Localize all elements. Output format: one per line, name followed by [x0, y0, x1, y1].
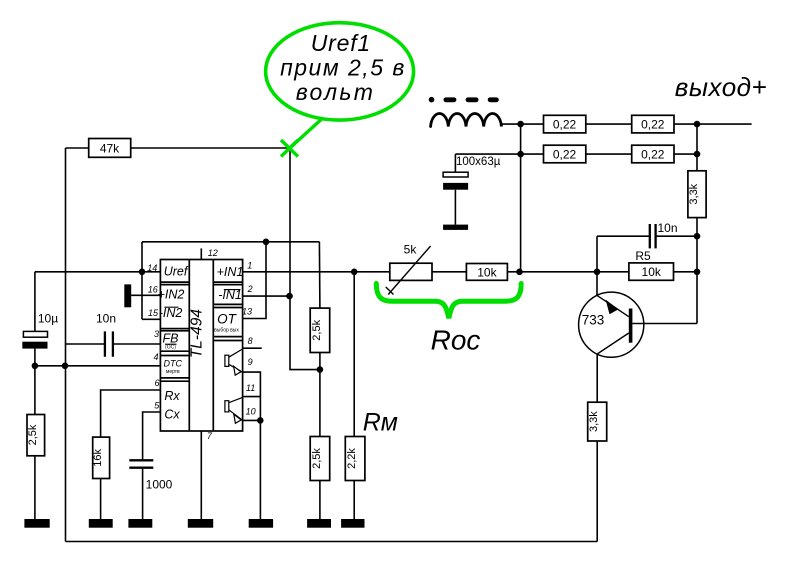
wire pin14 Uref to left: [35, 271, 160, 273]
wire 2,5k to ground: [34, 456, 36, 519]
svg-text:47k: 47k: [100, 142, 120, 156]
svg-text:вольт: вольт: [296, 79, 376, 105]
svg-text:0,22: 0,22: [641, 148, 665, 162]
svg-text:(ОС): (ОС): [165, 345, 176, 351]
svg-text:1000: 1000: [146, 478, 173, 492]
capacitor 10n left: [105, 331, 113, 356]
svg-text:0,22: 0,22: [553, 148, 577, 162]
wire bus right end down to 2,5k divider: [318, 242, 321, 308]
svg-text:16k: 16k: [92, 448, 104, 466]
wire pin6 Rx to 16k: [101, 390, 161, 437]
svg-text:2,5k: 2,5k: [311, 448, 323, 469]
resistor 0,22 bottom-left: [544, 145, 586, 163]
svg-text:R5: R5: [635, 249, 651, 263]
wire DTC pin4 horizontal: [35, 365, 160, 367]
svg-text:выход+: выход+: [675, 72, 767, 102]
resistor 16k: [93, 437, 110, 478]
svg-text:11: 11: [246, 383, 255, 393]
svg-text:прим 2,5 в: прим 2,5 в: [280, 55, 406, 81]
IC internal transistor Q-lower pins 11/10: [225, 397, 243, 423]
svg-text:100x63µ: 100x63µ: [456, 156, 501, 168]
junction divider midpoint: [317, 366, 324, 373]
svg-text:12: 12: [208, 248, 218, 258]
svg-text:OT: OT: [217, 311, 238, 326]
wire -IN1 down and right to divider midpoint: [290, 296, 320, 370]
wire between 2,5k resistors: [319, 353, 321, 437]
junction pin10: [257, 417, 264, 424]
ground under 2,5k divider: [307, 519, 331, 528]
green callout ellipse: [266, 23, 522, 319]
junction Roc right: [516, 269, 523, 276]
wire pin12 stub: [200, 248, 202, 259]
wire 3,3k bottom to long wire: [596, 441, 598, 542]
wire pin16 stub: [131, 294, 160, 296]
overline -IN1: [224, 289, 241, 291]
svg-text:13: 13: [242, 306, 252, 316]
green leader line: [290, 119, 323, 149]
capacitor 10n top-right: [650, 224, 656, 248]
ground under 2,5k left: [24, 519, 49, 528]
resistor 2,5k lower divider: [310, 437, 330, 481]
wire 1000 cap to ground: [142, 469, 144, 520]
wire pin7 to ground: [200, 431, 202, 519]
wire 16k to ground: [100, 479, 102, 520]
resistor R5 10k: [629, 263, 674, 280]
svg-text:14: 14: [147, 263, 157, 273]
wire pin11 stub: [243, 396, 261, 398]
svg-text:2,2k: 2,2k: [346, 448, 358, 469]
junction pin14/15: [139, 269, 146, 276]
resistor 10k feedback: [466, 264, 507, 281]
svg-text:выбор вых: выбор вых: [214, 328, 239, 334]
wire 10n left cap to FB pin3: [66, 343, 161, 345]
svg-text:мертв: мертв: [166, 369, 180, 375]
svg-text:6: 6: [154, 378, 159, 388]
ground under 1000 cap: [128, 519, 152, 528]
svg-text:Cx: Cx: [164, 407, 180, 421]
resistor 3,3k emitter: [588, 402, 607, 441]
wire pin5 Cx to 1000 cap: [143, 412, 161, 460]
wire 100x63u cap drop: [454, 154, 456, 172]
junction second row left: [517, 151, 524, 158]
green X mark: [281, 140, 298, 157]
svg-text:3: 3: [154, 329, 159, 339]
wire 2,5k lower to ground: [319, 481, 321, 520]
ground under 2,2k: [341, 519, 364, 528]
svg-text:10: 10: [246, 407, 256, 417]
wire vertical x=597 from 10n to transistor: [596, 236, 598, 295]
capacitor 100x63u electrolytic: [443, 172, 468, 230]
svg-text:DTC: DTC: [164, 359, 183, 369]
wire pin9 stub and tie down: [243, 372, 261, 420]
ground pin 7: [188, 519, 213, 528]
junction left vertical DTC: [62, 363, 69, 370]
wire down to 10u cap: [34, 272, 36, 332]
svg-text:Roc: Roc: [431, 325, 481, 356]
svg-text:0,22: 0,22: [641, 118, 665, 132]
variable resistor arrow on 5k: [386, 246, 431, 295]
wire collector to transistor base: [632, 323, 697, 325]
wire pin15 stub: [142, 318, 160, 320]
underline FB: [165, 343, 177, 345]
junction R5 right: [694, 269, 701, 276]
capacitor 10u electrolytic: [22, 331, 47, 348]
wire pin13 OT up to bus: [243, 242, 266, 319]
junction pin13 bus: [263, 239, 270, 246]
svg-text:-IN2: -IN2: [159, 306, 183, 320]
svg-text:10µ: 10µ: [38, 312, 58, 326]
wire 2,2k to ground: [353, 481, 355, 520]
wire right vertical x=697 through 3,3k: [696, 124, 698, 323]
svg-text:3,3k: 3,3k: [588, 411, 600, 432]
pin16 black bar: [124, 284, 131, 307]
junction output top right: [694, 121, 701, 128]
wire second 0,22 row: [455, 153, 697, 155]
svg-text:16: 16: [148, 284, 158, 294]
wire 10n top-right horizontal: [597, 235, 697, 237]
wire emitter bottom to 3,3k: [596, 354, 598, 402]
resistor 2,5k left: [27, 415, 45, 456]
svg-text:8: 8: [248, 336, 253, 346]
ground pins 9/10/11: [249, 519, 273, 528]
wire DTC node down to 2,5k: [34, 366, 36, 415]
svg-text:10k: 10k: [477, 265, 497, 279]
ground under 16k: [89, 519, 113, 528]
resistor 3,3k upper-right: [688, 171, 706, 218]
svg-text:Uref: Uref: [164, 265, 189, 279]
wire left bus vertical x=142: [141, 242, 143, 319]
svg-text:9: 9: [248, 357, 253, 367]
wire main horizontal chain segments: [354, 271, 697, 273]
resistor 2,5k upper divider: [310, 308, 330, 352]
resistor 0,22 bottom-right: [632, 145, 674, 163]
wire long left vertical: [65, 148, 67, 542]
overlines and underline: [164, 290, 240, 345]
wire pin10 stub and down to ground: [243, 420, 261, 519]
svg-text:+IN1: +IN1: [217, 265, 244, 279]
junction pin2: [286, 293, 293, 300]
svg-text:15: 15: [148, 308, 159, 318]
junction 10n right: [694, 233, 701, 240]
svg-text:Rм: Rм: [363, 409, 398, 437]
wire pin8 stub: [243, 347, 262, 349]
junction second row right: [694, 151, 701, 158]
svg-text:0,22: 0,22: [553, 118, 577, 132]
svg-text:2,5k: 2,5k: [27, 424, 39, 445]
green curly brace Roc: [376, 284, 521, 319]
wire 10u cap bottom to DTC node: [34, 349, 36, 366]
resistor 5k variable: [390, 263, 432, 280]
IC internal transistor Q-upper pins 8/9: [225, 349, 243, 375]
wire pin1 +IN1 to main node: [243, 271, 355, 273]
svg-text:TL-494: TL-494: [188, 309, 205, 358]
svg-text:Rx: Rx: [164, 389, 180, 403]
wire pin2 -IN1 stub: [243, 295, 290, 297]
wire top 47k loop: [66, 147, 291, 149]
svg-text:+IN2: +IN2: [158, 287, 185, 301]
resistor 2,2k: [345, 437, 365, 481]
resistor 0,22 top-right: [632, 115, 674, 133]
svg-text:5k: 5k: [404, 243, 418, 257]
wire vertical from green X node to -IN1: [289, 148, 291, 296]
inductor winding: [431, 114, 502, 127]
wire inductor node down to main chain: [520, 124, 522, 272]
tiny sub-labels: [165, 328, 239, 376]
svg-text:733: 733: [582, 313, 605, 328]
inductor core dashes: [429, 97, 499, 103]
wire Uref top bus y=241.8: [142, 241, 319, 243]
wire 2,2k vertical from main node: [353, 272, 355, 437]
IC TL-494 body: [160, 260, 242, 432]
junction 10u bottom: [32, 363, 39, 370]
resistor 0,22 top-left: [544, 115, 586, 133]
svg-text:FB: FB: [163, 332, 179, 346]
svg-text:1: 1: [247, 261, 252, 271]
svg-text:10k: 10k: [642, 265, 662, 279]
capacitor 1000: [129, 460, 153, 467]
junction R5 left: [594, 269, 601, 276]
svg-text:4: 4: [153, 352, 158, 362]
transistor 733: [579, 292, 644, 357]
overline -IN2: [164, 306, 178, 308]
svg-text:3,3k: 3,3k: [688, 183, 700, 204]
svg-text:Uref1: Uref1: [311, 30, 371, 56]
wire bottom long: [66, 541, 598, 543]
resistor 47k: [89, 139, 131, 158]
svg-text:10n: 10n: [96, 312, 116, 326]
wire inductor to 0,22 top row: [502, 123, 752, 125]
junction inductor output: [517, 121, 524, 128]
svg-text:10n: 10n: [657, 221, 677, 235]
svg-text:2,5k: 2,5k: [311, 319, 323, 340]
wire 100x63u cap to its ground bar: [454, 190, 456, 225]
junction +IN1 node: [351, 269, 358, 276]
svg-text:2: 2: [247, 284, 253, 294]
